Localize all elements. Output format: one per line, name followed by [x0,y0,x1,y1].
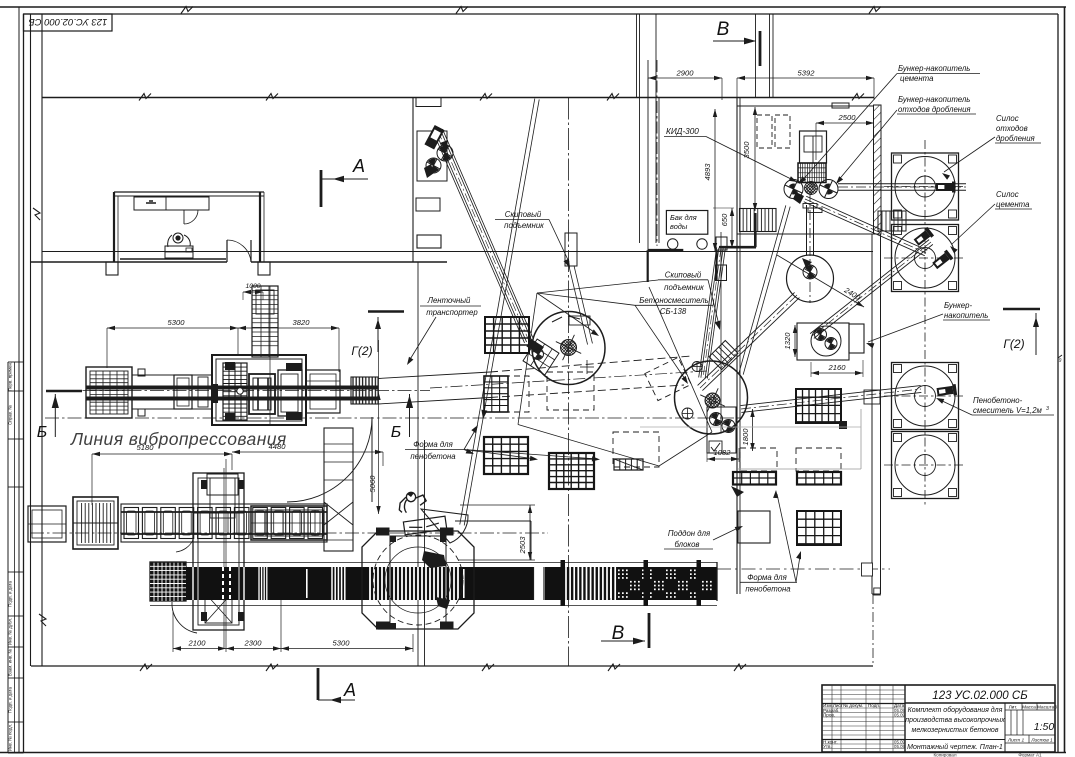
wall box 2 [416,198,440,211]
svg-text:А: А [352,156,365,176]
stepped form strip [614,459,643,470]
svg-text:Бетоносмеситель: Бетоносмеситель [639,296,709,305]
svg-text:Линия вибропрессования: Линия вибропрессования [70,429,287,449]
concrete mixer SB-138 no.1 [532,312,605,385]
band dotted pallet zone [618,570,712,598]
svg-text:Комплект оборудования для: Комплект оборудования для [908,706,1003,714]
building left wall double [30,14,32,666]
press1 main vibropress [212,355,306,425]
svg-text:5300: 5300 [168,318,186,327]
svg-text:дробления: дробления [996,134,1036,143]
conveyor end plate [716,562,718,601]
form grid F [733,472,776,485]
svg-text:В: В [717,19,730,40]
press right inner frame [278,370,302,416]
skip pit rect mixer1 [565,233,577,266]
band thin top/bottom frame lines [150,562,717,564]
hatched wall strip [874,105,882,234]
form grid G [797,472,841,485]
room bottom wall y=234 [737,233,881,235]
inner frame left double [18,7,20,753]
wall pilaster [106,262,118,275]
svg-text:Форма для: Форма для [747,573,787,582]
mold magazine strip [223,363,247,420]
skip ladder on rails [709,341,738,370]
svg-text:05.09: 05.09 [894,712,906,717]
KID-300 crusher [800,131,827,163]
band end clamp bars [561,560,566,606]
outer sheet border right [1064,7,1066,753]
press1 left pallet block [86,367,132,418]
dimension 2500 [815,123,817,160]
silo 1 crushing waste [892,153,959,220]
truck at silo1 [936,182,956,193]
cabin desk [134,197,209,210]
press2 pallet rail row [121,504,327,542]
grey outline segments [738,468,861,470]
silo horizontal axes [884,186,966,188]
cabin door opening bottom [226,260,228,264]
section marker A bottom [317,668,320,700]
dimension 2400 diagonal [777,255,864,307]
axis x=721 through mixer2 [720,232,722,433]
dimension 1082 [706,448,708,462]
svg-text:производства высокопрочных: производства высокопрочных [905,716,1005,724]
svg-text:4893: 4893 [703,163,712,181]
conveyor KID to silo1 horizontal [838,189,966,191]
svg-text:Копировал: Копировал [933,753,956,757]
axis y=390.5 press line 1 [60,390,430,392]
tower side arc [172,602,197,633]
dimension 1000 [242,292,244,300]
form grid H [797,511,841,545]
door arc [371,417,373,502]
corner brackets [225,362,235,370]
svg-text:Г(2): Г(2) [1003,337,1024,351]
conveyor KID to silo2 [804,202,925,256]
thick feed pipe below wall [715,251,717,282]
dashed diamond D4 [645,357,691,400]
svg-text:Масштаб: Масштаб [1037,705,1057,710]
conveyor bunker1 to mixer2 [698,292,795,385]
form grid B with dashed extension [484,376,529,412]
svg-text:Бункер-накопитель: Бункер-накопитель [898,95,970,104]
press1 tower above [252,286,278,357]
plus mark [580,366,594,368]
band white gap with brackets [533,567,545,600]
silo 2 cement [892,225,959,292]
form grid row1 (big, near mixer1) [484,437,528,474]
trucks at silo2 [913,227,934,247]
dashed tanks in room [757,115,772,148]
axis x=810 bunker [809,192,811,303]
dimension 1320 [795,324,864,326]
turntable corner pads [376,528,390,536]
turntable inner frame [390,536,446,629]
form grid row2 [549,453,594,489]
dimension 4480 [382,452,384,466]
svg-text:Пров.: Пров. [823,712,835,717]
outer sheet border bottom [0,752,1066,754]
turntable outline [362,531,474,629]
svg-text:9: 9 [1059,358,1062,364]
svg-text:пенобетона: пенобетона [410,452,456,461]
svg-text:Ленточный: Ленточный [427,296,471,305]
press2 tower edges over band [192,567,194,600]
bottom boundary wall y=666 [31,665,873,667]
dashed rect D5 [740,448,777,471]
equipment box on wall x413 [417,131,447,181]
svg-text:Силос: Силос [996,190,1019,199]
conveyor mixer2 to silo3 [741,392,921,412]
dimension 3500 [737,106,755,108]
svg-text:Взам. инв. №: Взам. инв. № [8,649,13,676]
wall pilaster top [416,98,441,107]
svg-text:СБ-138: СБ-138 [660,307,687,316]
thick feed line [754,213,757,247]
svg-text:1:50: 1:50 [1034,721,1055,733]
top-left inverted doc-number stamp [24,14,113,31]
frame centre ticks [1058,355,1062,358]
dimension 1800 [752,409,754,451]
svg-text:пенобетона: пенобетона [745,585,791,594]
cabin row wall y=262 [31,261,448,263]
band white seams [306,569,308,598]
building top wall (double) [31,13,1059,15]
thick line on y=250 [648,249,684,252]
svg-text:Подп.: Подп. [868,703,880,708]
svg-text:Поддон для: Поддон для [668,529,711,538]
dimension 5300 top [106,328,108,368]
waste bunker unit [797,323,849,360]
dimension 2160 [810,362,812,377]
band striped turntable zone [369,567,371,600]
svg-text:3500: 3500 [742,141,751,159]
axis y=533 press line 2 [30,532,548,534]
interior wall x=424.5 [424,440,426,666]
silo 4 [892,432,959,499]
cabin floor strip [120,258,226,260]
svg-text:5392: 5392 [798,69,816,78]
svg-text:Перв. примен.: Перв. примен. [8,362,13,391]
svg-text:№ докум.: № докум. [843,703,863,708]
axis y=569 continues right of band [717,568,890,570]
skip pit rects mixer2 [716,237,727,250]
svg-text:Инв. № подл.: Инв. № подл. [8,724,13,751]
svg-text:транспортер: транспортер [426,308,478,317]
title block [822,685,1055,752]
press2 column with X brace [324,428,353,551]
svg-text:мелкозернистых бетонов: мелкозернистых бетонов [912,726,999,734]
svg-text:Бак для: Бак для [670,213,697,222]
dashed rect D3 with stepped form [613,432,659,467]
dimension 650 [713,207,734,209]
svg-text:А: А [343,680,356,700]
form grid I right of mixer2 [796,389,841,423]
casting bay boundary lines [518,293,537,425]
small cross circle upper [692,362,702,372]
svg-text:2300: 2300 [244,639,263,648]
svg-text:3: 3 [1046,406,1049,412]
KID outlet steps [803,204,817,209]
svg-text:подъемник: подъемник [664,283,704,292]
svg-text:Скиповый: Скиповый [505,210,542,219]
wall line y=97.5 [42,97,874,99]
svg-text:5300: 5300 [333,639,351,648]
room wall verticals top right [636,14,638,98]
svg-text:Б: Б [37,424,47,441]
svg-text:Лист 1: Лист 1 [1007,738,1025,744]
svg-text:отходов дробления: отходов дробления [898,105,971,114]
svg-text:цемента: цемента [900,74,934,83]
belt centreline to mixer 2 [430,371,707,388]
svg-text:смеситель V=1,2м: смеситель V=1,2м [973,406,1043,415]
press2 left end block [28,506,66,542]
svg-text:Г(2): Г(2) [351,344,372,358]
svg-text:блоков: блоков [674,540,699,549]
skip rails R2 down to turntable [460,99,535,525]
svg-text:Масса: Масса [1022,705,1036,710]
mixer2 skip rails from KID [739,205,786,373]
interior wall x=418 [417,262,419,666]
inner frame right [1057,14,1059,753]
left attribute column boxes [8,361,24,363]
dimension 5060 [378,340,380,514]
svg-text:05.09: 05.09 [894,744,906,749]
press2 mid assembly [251,506,327,540]
section marker A top [320,170,323,207]
axis x=657 [246,59,657,61]
dimension 4893 [714,109,716,251]
KID feed grid [798,163,826,183]
axis x=270 press1 tower [269,286,271,426]
skip hoist rails R1 to mixer1 [440,130,531,340]
wall pilaster [258,262,270,275]
checkmark box 1082 [707,407,736,453]
svg-text:Подп. и дата: Подп. и дата [8,581,13,607]
press1 rails frame [132,375,212,409]
press centre block [249,374,275,414]
KID vibrator coil [805,182,818,195]
belt conveyor from press1 solid part [378,372,490,379]
turntable horizontal axis [350,580,482,582]
belt conveyor dashed part [490,356,692,372]
svg-text:2160: 2160 [828,363,847,372]
skip hoist machine at top of R1 [424,125,444,150]
rails from pit to mixer1 [569,267,588,345]
svg-text:Скиповый: Скиповый [665,271,702,280]
right wall double x=872/880 [871,234,873,594]
loader truck at mixer1 [523,339,559,375]
svg-text:Справ. №: Справ. № [8,405,13,425]
worker at turntable [398,491,427,517]
svg-text:отходов: отходов [996,124,1028,133]
small box on wall [832,103,849,108]
dimensions 2100 2300 5300 bottom [172,612,174,652]
svg-text:650: 650 [720,213,729,226]
svg-text:Формат А1: Формат А1 [1018,753,1042,757]
wall pilaster [417,235,441,248]
mixer2 skip rails from hoist pit [705,248,723,378]
dimension 5392 [873,78,875,100]
form grid A [485,317,529,353]
silo 3 foam [892,363,959,430]
svg-text:3820: 3820 [293,318,311,327]
svg-text:Бункер-накопитель: Бункер-накопитель [898,64,970,73]
column axis x=568.5 [569,97,667,99]
mixer2 discharge wheels [710,413,723,426]
svg-text:1800: 1800 [741,428,750,446]
conveyor bunker2 to silo2 [814,244,933,338]
wall line y=252 [42,251,873,253]
axis y=418 dash-dot [45,417,740,419]
corner axis x=873 [872,594,874,666]
black conveyor left end block [150,562,186,601]
svg-text:123 УС.02.000 СБ: 123 УС.02.000 СБ [932,690,1028,702]
dimension 5180 [91,454,93,505]
bunker feed pipe [806,205,808,255]
pallet square (blocks) [738,511,770,543]
svg-text:Бункер-: Бункер- [944,301,972,310]
svg-text:Инв. № дубл.: Инв. № дубл. [8,618,13,645]
svg-text:КИД-300: КИД-300 [666,127,699,136]
interior wall x=413 [412,98,414,263]
svg-text:2900: 2900 [676,69,695,78]
svg-text:воды: воды [670,222,688,231]
press1 out conveyor hatched [351,377,378,404]
wall niche right [864,390,880,404]
svg-text:1320: 1320 [783,332,792,350]
concrete mixer SB-138 no.2 [675,361,748,434]
label water tank [666,211,707,235]
section marker Г(2) right [1003,308,1040,311]
black conveyor main band [186,567,717,600]
pallet tilted [403,516,446,535]
cutting unit black parts [422,551,446,568]
svg-text:Подп. и дата: Подп. и дата [8,687,13,713]
dashed rect D1 [547,372,594,410]
dashed rect D6 [796,448,841,471]
svg-text:Пенобетоно-: Пенобетоно- [973,396,1023,405]
section marker Г(2) left [368,310,404,313]
press2 feeder block [73,497,118,549]
truck at silo3 [936,384,957,398]
press1 thick twin rails full length [86,386,378,390]
svg-text:2500: 2500 [838,113,857,122]
svg-text:2503: 2503 [518,536,527,555]
cabin operator at desk [165,233,193,258]
pallet frame mid [174,375,192,409]
svg-text:Монтажный чертеж. План-1: Монтажный чертеж. План-1 [907,743,1003,751]
cement storage bunker circle [787,255,834,302]
svg-text:Листов 1: Листов 1 [1030,738,1053,744]
svg-text:подъемник: подъемник [504,221,544,230]
svg-text:Силос: Силос [996,114,1019,123]
turntable dashed circle [373,535,463,625]
band white dashed columns at tower [222,567,224,600]
room top wall y=106 [737,105,874,107]
svg-text:цемента: цемента [996,200,1030,209]
press1 right frame [306,370,340,413]
operator cabin walls [114,191,264,193]
svg-text:Б: Б [391,424,401,441]
fan sector [421,509,468,543]
axis x=925 through silos [924,140,926,505]
svg-text:2100: 2100 [188,639,207,648]
band white stripe zone 1 [258,567,260,600]
band white stripe zone 2 [331,567,333,600]
svg-text:123 УС.02.000 СБ: 123 УС.02.000 СБ [29,16,108,27]
dimension 2900 [647,78,649,97]
stairs outside wall [878,211,906,231]
inner frame top [24,13,1059,15]
stairs top right [740,209,777,232]
band stripe zone 3 [565,567,567,600]
axis x=224 press2 tower [223,468,225,648]
KID wheels [784,180,803,199]
svg-text:Лит.: Лит. [1009,705,1018,710]
svg-text:Утв.: Утв. [823,744,832,749]
svg-text:Форма для: Форма для [413,440,453,449]
svg-text:накопитель: накопитель [944,311,988,320]
dimension 3920 [338,328,340,372]
outer sheet border top [0,6,1066,8]
cabin inner door arc [183,210,185,224]
press2 tower (crosses conveyor) [193,473,244,630]
dimension 2503 [460,504,535,506]
